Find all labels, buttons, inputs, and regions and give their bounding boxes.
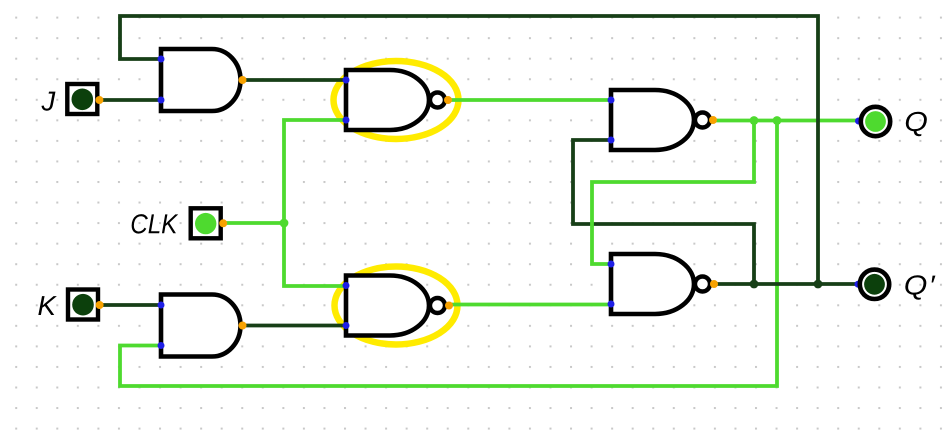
wire: CLK vertical branch to U1 and U2 [284, 120, 346, 286]
node: Q' net junction 1 [750, 280, 759, 289]
wire: Q cross-coupling to NAND U4 upper input [592, 121, 754, 265]
wire: NAND U2 output to NAND U4 lower input [449, 303, 611, 307]
label J [41, 92, 55, 111]
label K [38, 296, 57, 315]
wire: top feedback from Q' net to gate A upper input [120, 16, 818, 284]
node: CLK tee junction [280, 219, 289, 228]
wire: J port to gate A lower input [100, 98, 159, 102]
input port J [67, 84, 103, 114]
nand-gate U3 (top right latch gate) [608, 90, 718, 150]
wire: Q' cross-coupling to NAND U3 lower input [573, 140, 754, 284]
node: Q net junction 1 [750, 116, 759, 125]
wire: Q net from NAND U3 output to Q port [713, 119, 856, 123]
yellow highlight ellipse around U2 [335, 267, 458, 345]
input port K [68, 290, 104, 320]
wire: Q feedback to gate B lower input [120, 121, 777, 387]
wire: CLK port to CLK junction [222, 221, 284, 225]
output port Q' [855, 270, 890, 299]
nand-gate U1 (top, yellow circled) [343, 70, 453, 130]
wire: Q' net from NAND U4 output to Q' port [713, 282, 856, 286]
wire: gate B output to NAND U2 lower input [242, 324, 346, 328]
nand-gate U2 (bottom, yellow circled) [343, 276, 454, 336]
and-gate A (J input gate) [158, 49, 247, 111]
wire: gate A output to NAND U1 upper input [242, 78, 346, 82]
label Q' [905, 275, 935, 299]
input port CLK [191, 208, 228, 238]
output port Q [855, 107, 890, 136]
wire: K port to gate B upper input [100, 303, 159, 307]
nand-gate U4 (bottom right latch gate) [608, 254, 719, 314]
node: Q' net junction 2 [814, 280, 823, 289]
node: Q net junction 2 [773, 116, 782, 125]
and-gate B (K input gate) [158, 295, 247, 357]
yellow highlight ellipse around U1 [334, 61, 459, 139]
wire: NAND U1 output to NAND U3 upper input [447, 98, 611, 102]
label Q [906, 112, 927, 136]
label CLK [132, 214, 179, 233]
